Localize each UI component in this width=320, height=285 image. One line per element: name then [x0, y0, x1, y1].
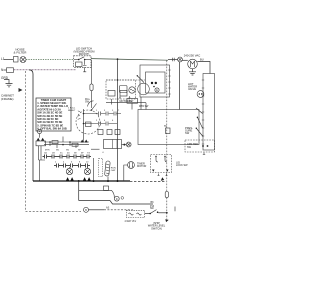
- fuse F2: [7, 68, 14, 73]
- svg-text:L1: L1: [1, 57, 5, 61]
- console right verticals: [93, 158, 95, 181]
- end arrow: [165, 219, 168, 222]
- svg-text:& FILTER: & FILTER: [14, 51, 28, 55]
- svg-text:10: 10: [86, 162, 89, 164]
- label LID LOCK SW: [176, 162, 188, 168]
- small boxes above center column: [108, 91, 127, 97]
- svg-text:BK: BK: [151, 201, 155, 204]
- label HOT WATER VALVE: [188, 82, 197, 91]
- svg-text:6: 6: [112, 120, 114, 122]
- console top wire dots: [49, 141, 71, 145]
- svg-text:6: 6: [71, 162, 73, 164]
- wire lower corner: [110, 201, 153, 205]
- run capacitor body: [105, 161, 111, 176]
- console mid labels: [45, 150, 89, 164]
- motor winding 2: [84, 168, 90, 174]
- aux winding circle: [126, 142, 131, 147]
- svg-text:CAP: CAP: [111, 169, 116, 172]
- bottom left vertical: [78, 181, 80, 201]
- small circle next: [121, 197, 124, 200]
- svg-text:AS: AS: [106, 206, 110, 209]
- water valve solenoid: [197, 91, 204, 98]
- junction dot relay top: [117, 79, 119, 81]
- lamp DS1: [178, 57, 183, 62]
- timer cam vertical: [83, 109, 85, 142]
- svg-text:4 WAY VLV: 4 WAY VLV: [125, 220, 137, 223]
- svg-text:2: 2: [55, 162, 57, 164]
- noise filter F1: [14, 57, 27, 63]
- wire hot to lid switch: [26, 59, 74, 61]
- wire below relay cluster: [106, 97, 146, 110]
- svg-text:MOTOR: MOTOR: [137, 165, 146, 168]
- short stub above bus: [107, 177, 109, 182]
- console contact labels r1: [44, 152, 90, 155]
- thermal element: [164, 125, 170, 134]
- motor protector circle: [138, 83, 150, 95]
- console contact row 1: [43, 155, 92, 159]
- fuse lower lead: [91, 91, 93, 109]
- ground symbol motor: [189, 69, 196, 75]
- wire lower: [79, 200, 110, 202]
- svg-text:2: 2: [96, 120, 98, 122]
- fill switch symbol: [88, 101, 97, 111]
- wire to lamp: [168, 59, 178, 61]
- ground symbol cabinet: [4, 80, 13, 87]
- wire upper to bracket: [79, 189, 112, 191]
- contact row lower: [84, 122, 118, 126]
- console left column: [39, 146, 46, 181]
- outer box ticks: [168, 70, 170, 94]
- console contact row 2: [54, 164, 90, 168]
- squiggles in box: [129, 213, 142, 215]
- svg-text:(FRAME): (FRAME): [1, 97, 14, 101]
- spin cluster outer box: [140, 65, 170, 97]
- connector ticks: [202, 80, 204, 144]
- wire motor to right drop: [197, 62, 210, 74]
- dashed cycle box: [151, 155, 172, 173]
- junction dot at center drop: [117, 58, 119, 60]
- lid fuse vertical lead: [91, 60, 93, 84]
- timer motor lead: [124, 165, 128, 181]
- switch arm right upper: [196, 108, 203, 114]
- pressure switch arm: [196, 128, 203, 137]
- wire from B: [89, 209, 105, 211]
- timer dial dashed circle: [76, 110, 100, 134]
- water level dashed box: [126, 210, 144, 217]
- wire lamp drop: [179, 62, 181, 110]
- drive motor M1: [188, 59, 198, 69]
- wire center vertical drop: [117, 59, 119, 181]
- dashed vertical mid right: [166, 61, 168, 192]
- big mid-right box: [138, 110, 199, 145]
- corner wire center: [111, 99, 113, 105]
- main bottom bus dashed: [130, 181, 166, 183]
- wire stub to aux: [122, 144, 127, 146]
- wire N lead: [4, 69, 7, 71]
- console top wires: [44, 137, 89, 149]
- cabinet dashed boundary vertical: [25, 71, 27, 211]
- svg-text:B: B: [85, 209, 87, 212]
- relay circle with dots: [129, 87, 135, 93]
- contact row labels: [96, 110, 120, 122]
- legend text lines: [37, 98, 68, 131]
- svg-text:1A: 1A: [44, 152, 47, 155]
- dashed line top of relay box: [106, 79, 145, 81]
- wire lamp to motor: [182, 59, 187, 61]
- svg-text:2B: 2B: [52, 153, 55, 155]
- label WATER LEVEL SWITCH: [148, 222, 166, 231]
- arrow near bus corner: [161, 177, 164, 181]
- wire neutral run: [14, 69, 77, 71]
- svg-text:5E: 5E: [74, 153, 77, 155]
- small valve box top center: [127, 99, 138, 110]
- dial radial ticks: [78, 111, 81, 120]
- svg-text:SP: SP: [78, 150, 81, 152]
- svg-text:D: D: [116, 198, 118, 201]
- junction dots inner: [151, 82, 153, 84]
- svg-text:LOCK SW: LOCK SW: [176, 164, 188, 167]
- svg-text:RESET: RESET: [68, 110, 76, 112]
- svg-text:MTR SW: MTR SW: [139, 106, 149, 108]
- contact row upper: [84, 112, 122, 116]
- relay contact marks: [119, 96, 131, 98]
- connector arrows mid: [81, 140, 88, 143]
- svg-text:6F: 6F: [81, 153, 84, 155]
- label TIMER MOTOR: [137, 163, 146, 169]
- fuse F3: [90, 84, 93, 91]
- winding leads: [70, 167, 88, 168]
- stub pin: [174, 207, 176, 212]
- connector circle E: [155, 88, 159, 92]
- capacitor dashed enclosure: [99, 158, 103, 176]
- wire connector ticks: [172, 58, 174, 61]
- svg-text:BU: BU: [200, 58, 204, 62]
- svg-text:4: 4: [102, 152, 104, 154]
- wire hot main run: [91, 59, 168, 61]
- svg-text:SWITCH): SWITCH): [151, 227, 162, 230]
- bracket curve to connector D: [112, 190, 115, 197]
- label LID SWITCH: [74, 47, 96, 57]
- right connector box: [203, 74, 215, 151]
- wire L1 lead: [4, 59, 13, 61]
- small boxes row: [98, 130, 120, 135]
- dashed wire continue: [104, 209, 133, 211]
- fill switch label: [85, 98, 91, 104]
- cycle switch wavies: [155, 156, 167, 176]
- connector arrows below legend: [37, 138, 45, 141]
- label CAP: [111, 168, 116, 173]
- series boxes on console wires: [52, 141, 78, 147]
- bottom small box on center drop: [104, 186, 109, 191]
- spin cluster inner box: [146, 72, 166, 93]
- connector circle D: [114, 196, 119, 201]
- connector circle A below legend: [37, 129, 41, 133]
- svg-text:1: 1: [96, 110, 98, 112]
- wire from switch to right: [158, 212, 166, 214]
- relay coil box: [120, 86, 128, 93]
- dashed drop to water line: [166, 198, 168, 220]
- dashed box right lower: [185, 140, 215, 152]
- svg-text:3C: 3C: [60, 153, 63, 155]
- timer motor circle: [128, 162, 135, 169]
- wire to pressure switch: [145, 213, 150, 215]
- arrow to cabinet: [19, 88, 23, 92]
- svg-text:4D: 4D: [67, 153, 70, 155]
- junction dot right of box: [123, 144, 125, 146]
- svg-text:8: 8: [79, 162, 81, 164]
- motor winding 1: [66, 168, 72, 174]
- center solid box: [104, 140, 122, 149]
- timer small box: [86, 122, 92, 127]
- junction dot water line: [166, 212, 168, 214]
- svg-text:SW: SW: [185, 131, 190, 135]
- label PRESSURE SW: [185, 126, 193, 135]
- dial junction dots: [83, 113, 85, 125]
- label P13: [150, 206, 155, 210]
- label CABINET: [1, 94, 14, 101]
- fuse on dashed drop: [165, 192, 168, 198]
- connector circle B: [84, 207, 89, 212]
- svg-text:W2: W2: [66, 150, 70, 152]
- svg-text:W1: W1: [56, 150, 60, 152]
- svg-text:VLV: VLV: [128, 101, 133, 103]
- label NOISE FILTER: [14, 48, 28, 55]
- left neutral vertical: [29, 70, 33, 181]
- label left of dial: [68, 108, 76, 113]
- wire console to cap: [91, 148, 100, 150]
- cabinet dashed boundary horizontal: [26, 210, 82, 212]
- switch arm left upper: [137, 75, 144, 82]
- temp switch arm: [197, 117, 203, 128]
- svg-text:7G: 7G: [87, 153, 90, 155]
- svg-text:6. OFF BAL SW 9A 10B: 6. OFF BAL SW 9A 10B: [37, 127, 66, 131]
- svg-text:4: 4: [63, 162, 65, 164]
- main bottom bus solid: [33, 180, 130, 182]
- svg-text:VALVE: VALVE: [188, 87, 196, 91]
- cycle box corner marks: [152, 170, 169, 172]
- svg-text:SW: SW: [187, 146, 192, 149]
- bus junction dots: [78, 180, 119, 182]
- svg-text:SW: SW: [150, 208, 155, 210]
- svg-text:MTR: MTR: [45, 150, 50, 152]
- water level switch: [149, 210, 158, 215]
- contents of dashed box: [202, 145, 208, 154]
- bus arrows: [66, 177, 91, 180]
- link circle A to arrows: [39, 134, 41, 138]
- relay dashed enclosure: [106, 80, 136, 99]
- legend box: [36, 98, 71, 131]
- lid switch S1: [74, 56, 92, 72]
- svg-text:FRONT): FRONT): [79, 52, 90, 56]
- svg-text:7: 7: [118, 110, 120, 112]
- svg-text:240-250 VAC: 240-250 VAC: [184, 54, 201, 58]
- connector box below legend: [36, 141, 46, 146]
